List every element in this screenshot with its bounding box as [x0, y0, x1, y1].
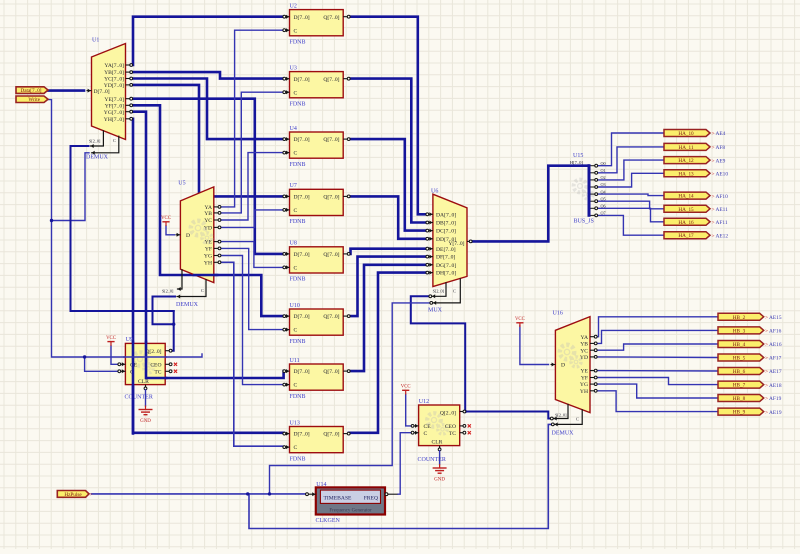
svg-text:YB: YB	[204, 211, 212, 217]
svg-text:HA_16: HA_16	[678, 220, 694, 226]
wire Data[7..0] to U1.D	[48, 89, 84, 92]
svg-text:Q[2..0]: Q[2..0]	[440, 411, 456, 417]
svg-text:C: C	[294, 383, 298, 389]
svg-text:D[7..0]: D[7..0]	[294, 137, 310, 143]
svg-text:U6: U6	[431, 189, 438, 195]
wire U5.YC to U4.C	[222, 153, 285, 220]
wire U16.YA to HB_2	[596, 317, 718, 337]
svg-text:Q[7..0]: Q[7..0]	[323, 369, 339, 375]
mux U6	[426, 189, 472, 314]
port HB_8	[718, 395, 782, 403]
wire U5.YD to U7.C	[222, 210, 285, 228]
svg-text:D: D	[186, 233, 190, 239]
svg-text:>: >	[712, 194, 715, 200]
svg-text:U1: U1	[92, 38, 99, 44]
svg-text:DH[7..0]: DH[7..0]	[436, 271, 456, 277]
port HA_13	[664, 170, 728, 178]
svg-text:>: >	[765, 369, 768, 375]
svg-text:HB_8: HB_8	[733, 396, 746, 402]
svg-text:>: >	[712, 233, 715, 239]
svg-text:HA_10: HA_10	[678, 131, 694, 137]
register U3 FDNB	[283, 65, 350, 107]
svg-text:HA_15: HA_15	[678, 207, 694, 213]
wire U1.YD to U7.D	[131, 85, 284, 196]
svg-text:U2: U2	[290, 3, 297, 9]
svg-text:U16: U16	[553, 311, 563, 317]
wire O2 to HA_12	[597, 160, 664, 180]
svg-text:S[2..0]: S[2..0]	[555, 413, 567, 418]
svg-text:AF8: AF8	[716, 145, 726, 151]
svg-text:AE10: AE10	[716, 172, 729, 178]
svg-text:Frequency Generator: Frequency Generator	[329, 508, 372, 513]
wire clock line to U16.C	[249, 424, 553, 528]
svg-text:AE12: AE12	[716, 233, 729, 239]
register U11 FDNB	[283, 358, 350, 400]
ground GND (U12)	[433, 464, 447, 483]
wire Write vertical trunk	[48, 100, 202, 357]
svg-text:C: C	[201, 288, 204, 293]
svg-text:D[7..0]: D[7..0]	[294, 77, 310, 83]
port HB_7	[718, 381, 782, 389]
svg-text:Q[7..0]: Q[7..0]	[323, 314, 339, 320]
wire U2.Q to U6.DA	[349, 17, 428, 215]
svg-text:FDNB: FDNB	[290, 101, 306, 107]
port HA_11	[664, 143, 725, 151]
svg-text:O2: O2	[601, 175, 606, 180]
wire O0 to HA_10	[597, 133, 664, 166]
wire HzPulse to U14.TIMEBASE	[92, 493, 306, 495]
svg-text:YA: YA	[581, 335, 588, 341]
svg-text:HA_17: HA_17	[678, 233, 694, 239]
wire O6 to HA_16	[597, 208, 664, 222]
svg-text:FDNB: FDNB	[290, 456, 306, 462]
wire O4 to HA_14	[597, 194, 664, 196]
svg-text:C: C	[294, 328, 298, 334]
wire U16.YE to HB_6	[596, 370, 718, 372]
wire U5.YG to U11.C	[222, 256, 285, 385]
svg-text:HB_6: HB_6	[733, 369, 746, 375]
svg-text:D[7..0]: D[7..0]	[294, 15, 310, 21]
port HB_2	[718, 313, 782, 321]
svg-text:>: >	[765, 329, 768, 335]
wire U4.Q to U6.DC	[349, 139, 428, 231]
svg-text:HB_9: HB_9	[733, 410, 746, 416]
svg-text:VCC: VCC	[401, 385, 411, 390]
wire VCC to U5.D	[166, 226, 175, 235]
svg-text:YG[7..0]: YG[7..0]	[104, 110, 124, 116]
wire U16.YH to HB_9	[596, 391, 718, 412]
svg-text:>: >	[712, 131, 715, 137]
port HB_6	[718, 368, 782, 376]
wire U12.Q to U16.S	[466, 412, 552, 419]
clock generator U14 CLKGEN	[306, 482, 398, 524]
wire U8.Q to U6.DE	[349, 249, 428, 254]
svg-text:VCC: VCC	[515, 317, 525, 322]
wire VCC to U16.D	[520, 326, 549, 365]
svg-text:C: C	[294, 151, 298, 157]
svg-text:C: C	[294, 445, 298, 451]
svg-text:C: C	[294, 90, 298, 96]
wire U3.Q to U6.DB	[349, 79, 428, 223]
port Write	[16, 96, 48, 103]
svg-text:AF19: AF19	[769, 396, 782, 402]
svg-text:D[7..0]: D[7..0]	[94, 89, 110, 95]
svg-text:TC: TC	[154, 369, 161, 375]
svg-text:>: >	[765, 356, 768, 362]
wire U9.Q to U5.S	[153, 297, 176, 325]
svg-text:U15: U15	[573, 153, 583, 159]
port HB_3	[718, 327, 782, 335]
svg-text:AF10: AF10	[716, 194, 729, 200]
svg-text:Q[7..0]: Q[7..0]	[323, 77, 339, 83]
svg-text:>: >	[90, 492, 93, 498]
svg-text:YF[7..0]: YF[7..0]	[105, 103, 124, 109]
svg-text:TC: TC	[449, 431, 456, 437]
wire U16.YD to HB_5	[596, 356, 718, 359]
wire overlay crossing U9 (YG bus)	[146, 342, 166, 378]
port HA_16	[664, 218, 728, 226]
svg-text:YG: YG	[204, 254, 212, 260]
wire U9.Q riser	[171, 311, 174, 351]
wire U5.YH to U13.C	[222, 262, 285, 446]
svg-text:>: >	[712, 172, 715, 178]
svg-text:YF: YF	[205, 247, 212, 253]
svg-text:Q[7..0]: Q[7..0]	[323, 15, 339, 21]
svg-text:D[7..0]: D[7..0]	[294, 369, 310, 375]
svg-text:TIMEBASE: TIMEBASE	[324, 495, 353, 501]
svg-text:Q[2..0]: Q[2..0]	[145, 349, 161, 355]
port HA_12	[664, 157, 726, 165]
svg-text:HA_12: HA_12	[678, 158, 694, 164]
svg-text:YE[7..0]: YE[7..0]	[104, 97, 124, 103]
svg-text:AE16: AE16	[769, 342, 782, 348]
svg-text:D[7..0]: D[7..0]	[294, 195, 310, 201]
svg-text:DB[7..0]: DB[7..0]	[436, 221, 456, 227]
svg-text:O0: O0	[601, 161, 606, 166]
svg-text:YE: YE	[581, 369, 589, 375]
svg-text:C: C	[294, 208, 298, 214]
svg-text:C: C	[424, 431, 428, 437]
register U13 FDNB	[283, 420, 350, 462]
wire Write branch to U9.C	[85, 357, 118, 371]
svg-text:AF11: AF11	[716, 220, 728, 226]
svg-text:YH: YH	[204, 260, 212, 266]
svg-text:Write: Write	[28, 97, 40, 103]
port HzPulse	[57, 491, 92, 499]
svg-text:FDNB: FDNB	[290, 277, 306, 283]
svg-text:YB: YB	[580, 342, 588, 348]
wire U16.YG to HB_8	[596, 384, 718, 398]
svg-text:YC[7..0]: YC[7..0]	[104, 77, 124, 83]
svg-text:>: >	[765, 396, 768, 402]
svg-text:>: >	[712, 158, 715, 164]
port HA_17	[664, 232, 728, 240]
svg-text:FDNB: FDNB	[290, 219, 306, 225]
svg-text:D[7..0]: D[7..0]	[294, 432, 310, 438]
svg-text:U4: U4	[290, 126, 297, 132]
svg-text:DE[7..0]: DE[7..0]	[436, 247, 456, 253]
wire overlay crossing U9 (Write trunk)	[124, 356, 166, 358]
svg-text:BUS_JS: BUS_JS	[574, 219, 594, 225]
svg-text:D[7..0]: D[7..0]	[294, 314, 310, 320]
svg-text:GND: GND	[434, 478, 445, 483]
svg-text:DG[7..0]: DG[7..0]	[436, 263, 456, 269]
svg-text:>: >	[712, 145, 715, 151]
svg-text:Y[7..0]: Y[7..0]	[448, 241, 464, 247]
svg-text:HA_11: HA_11	[678, 145, 693, 151]
svg-text:CLKGEN: CLKGEN	[316, 518, 341, 524]
svg-text:C: C	[294, 28, 298, 34]
svg-text:YH[7..0]: YH[7..0]	[104, 117, 124, 123]
wire U1.YE to U8.D	[131, 99, 284, 254]
svg-text:COUNTER: COUNTER	[125, 395, 153, 401]
wire Write branch to U1.C	[52, 153, 90, 221]
register U7 FDNB	[283, 183, 350, 225]
svg-text:HB_5: HB_5	[733, 356, 746, 362]
svg-text:U11: U11	[290, 358, 300, 364]
svg-text:HA_14: HA_14	[678, 194, 694, 200]
wire U1.S select bus	[71, 146, 174, 311]
wire VCC to U9.CE	[111, 346, 118, 364]
svg-text:YD[7..0]: YD[7..0]	[104, 83, 124, 89]
svg-text:Q[7..0]: Q[7..0]	[323, 432, 339, 438]
wire U16.YC to HB_4	[596, 344, 718, 350]
wire O5 to HA_15	[597, 201, 664, 209]
svg-text:AF16: AF16	[769, 329, 782, 335]
wire O1 to HA_11	[597, 147, 664, 173]
wire overlay crossing U5 corner (YF bus)	[194, 274, 217, 277]
power VCC (U16.D)	[515, 317, 525, 327]
wire U6.C to clock line	[270, 303, 431, 494]
svg-text:C: C	[576, 417, 579, 422]
wire U1.YF to U10.D	[131, 105, 284, 316]
wire O7 to HA_17	[597, 215, 664, 235]
wire overlay crossing U9 (YH bus)	[132, 342, 135, 434]
svg-text:FDNB: FDNB	[290, 162, 306, 168]
svg-text:H[7..0]: H[7..0]	[570, 160, 584, 165]
port HA_15	[664, 205, 728, 213]
svg-text:HB_3: HB_3	[733, 328, 746, 334]
svg-text:C: C	[294, 266, 298, 272]
wire U10.Q to U6.DF	[349, 257, 428, 317]
svg-text:AF17: AF17	[769, 356, 782, 362]
svg-text:S[2..0]: S[2..0]	[89, 139, 101, 144]
svg-text:C: C	[113, 138, 116, 143]
svg-text:HzPulse: HzPulse	[64, 492, 82, 498]
svg-text:U3: U3	[290, 65, 297, 71]
svg-text:CLR: CLR	[138, 379, 149, 385]
svg-text:O7: O7	[601, 211, 606, 216]
svg-text:AE11: AE11	[716, 207, 729, 213]
demux U16	[550, 311, 597, 437]
svg-text:U12: U12	[419, 399, 429, 405]
demux U5	[162, 181, 221, 309]
svg-text:FREQ: FREQ	[364, 495, 378, 501]
svg-text:AE19: AE19	[769, 410, 782, 416]
wire U16.YB to HB_3	[596, 330, 718, 343]
wire U13.Q to U6.DH	[349, 273, 428, 433]
svg-text:FDNB: FDNB	[290, 394, 306, 400]
svg-text:O3: O3	[601, 182, 606, 187]
svg-text:AE9: AE9	[716, 158, 726, 164]
svg-text:DEMUX: DEMUX	[176, 302, 199, 308]
svg-text:DF[7..0]: DF[7..0]	[436, 255, 455, 261]
svg-text:U8: U8	[290, 241, 297, 247]
wire U1.YC to U4.D	[131, 79, 284, 140]
svg-text:DC[7..0]: DC[7..0]	[436, 229, 456, 235]
svg-text:U14: U14	[316, 482, 326, 488]
svg-text:YB[7..0]: YB[7..0]	[104, 70, 124, 76]
svg-text:YC: YC	[580, 348, 588, 354]
wire U6.Y to U15.H	[471, 166, 589, 242]
wire U11.Q to U6.DG	[349, 265, 428, 371]
wire U14.FREQ to U12.C	[398, 433, 412, 495]
port Data[7..0]	[16, 87, 48, 94]
wire U9.CLR to GND	[145, 390, 147, 406]
svg-text:AE15: AE15	[769, 315, 782, 321]
svg-text:D: D	[561, 363, 565, 369]
svg-text:AE4: AE4	[716, 131, 726, 137]
svg-text:CEO: CEO	[150, 362, 161, 368]
svg-text:VCC: VCC	[106, 336, 116, 341]
port HB_5	[718, 354, 782, 362]
svg-text:>: >	[765, 410, 768, 416]
svg-text:Q[7..0]: Q[7..0]	[323, 195, 339, 201]
svg-text:>: >	[712, 220, 715, 226]
wire U16.YF to HB_7	[596, 378, 718, 385]
wire U6.S to U12.Q	[411, 296, 465, 411]
wire U7.Q to U6.DD	[349, 196, 428, 238]
svg-text:C: C	[453, 288, 456, 293]
svg-text:YG: YG	[580, 382, 588, 388]
svg-text:VCC: VCC	[161, 216, 171, 221]
svg-text:Data[7..0]: Data[7..0]	[20, 88, 41, 94]
svg-text:O4: O4	[601, 189, 607, 194]
svg-text:HB_2: HB_2	[733, 315, 746, 321]
svg-text:U13: U13	[290, 420, 300, 426]
register U4 FDNB	[283, 126, 350, 168]
svg-text:>: >	[765, 342, 768, 348]
wire U1.YA to U2.D	[131, 17, 284, 65]
wire U5.YA to U2.C	[222, 30, 285, 207]
svg-text:S[2..0]: S[2..0]	[433, 288, 445, 293]
wire U12.CLR to GND	[439, 451, 441, 465]
port HA_10	[664, 130, 726, 138]
svg-text:CEO: CEO	[445, 424, 456, 430]
svg-text:FDNB: FDNB	[290, 39, 306, 45]
counter U12	[411, 399, 471, 463]
svg-text:HB_7: HB_7	[733, 383, 746, 389]
svg-text:MUX: MUX	[428, 308, 443, 314]
svg-text:O5: O5	[601, 196, 606, 201]
svg-text:DEMUX: DEMUX	[86, 155, 109, 161]
svg-text:AE17: AE17	[769, 369, 782, 375]
ground GND (U9)	[139, 406, 153, 425]
svg-text:CE: CE	[424, 424, 432, 430]
svg-text:YA[7..0]: YA[7..0]	[104, 63, 124, 69]
svg-text:COUNTER: COUNTER	[418, 457, 446, 463]
port HB_4	[718, 341, 782, 349]
bus joiner U15 BUS_JS	[570, 153, 607, 224]
svg-text:O6: O6	[601, 204, 606, 209]
svg-text:HB_4: HB_4	[733, 342, 746, 348]
svg-text:>: >	[712, 207, 715, 213]
svg-text:U10: U10	[290, 303, 300, 309]
wire VCC to U12.CE	[406, 395, 412, 426]
svg-text:Q[7..0]: Q[7..0]	[323, 137, 339, 143]
wire U5.YF to U10.C	[222, 248, 285, 329]
svg-text:YH: YH	[580, 389, 588, 395]
port HA_14	[664, 192, 728, 200]
svg-text:>: >	[765, 383, 768, 389]
svg-text:GND: GND	[140, 419, 151, 424]
svg-text:>: >	[765, 315, 768, 321]
svg-text:O1: O1	[601, 168, 606, 173]
wire U1.YB to U3.D	[131, 72, 284, 79]
svg-text:HA_13: HA_13	[678, 171, 694, 177]
svg-text:YD: YD	[580, 355, 588, 361]
svg-text:FDNB: FDNB	[290, 339, 306, 345]
svg-text:YF: YF	[581, 376, 588, 382]
svg-text:S[2..0]: S[2..0]	[162, 289, 174, 294]
wire O3 to HA_13	[597, 173, 664, 187]
svg-text:AE18: AE18	[769, 383, 782, 389]
svg-text:Q[7..0]: Q[7..0]	[323, 252, 339, 258]
port HB_9	[718, 408, 782, 416]
wire U5.YB to U3.C	[222, 92, 285, 213]
wire U5.YE to U8.C	[222, 242, 285, 268]
register U2 FDNB	[283, 3, 350, 45]
svg-text:DA[7..0]: DA[7..0]	[436, 212, 456, 218]
svg-text:DEMUX: DEMUX	[552, 431, 575, 437]
svg-text:CLR: CLR	[432, 440, 443, 446]
register U8 FDNB	[283, 241, 350, 283]
wire U1.YH to U13.D	[131, 119, 284, 433]
wire U1.YG to U11.D	[131, 112, 284, 378]
svg-text:U5: U5	[178, 181, 185, 187]
power VCC (U5.D)	[161, 216, 171, 226]
svg-text:D[7..0]: D[7..0]	[294, 252, 310, 258]
demux U1	[86, 38, 133, 161]
power VCC (U12.CE)	[401, 385, 411, 395]
power VCC (U9.CE)	[106, 336, 116, 346]
register U10 FDNB	[283, 303, 350, 345]
counter U9	[118, 337, 177, 400]
svg-text:U7: U7	[290, 183, 297, 189]
junction dots	[246, 492, 249, 495]
